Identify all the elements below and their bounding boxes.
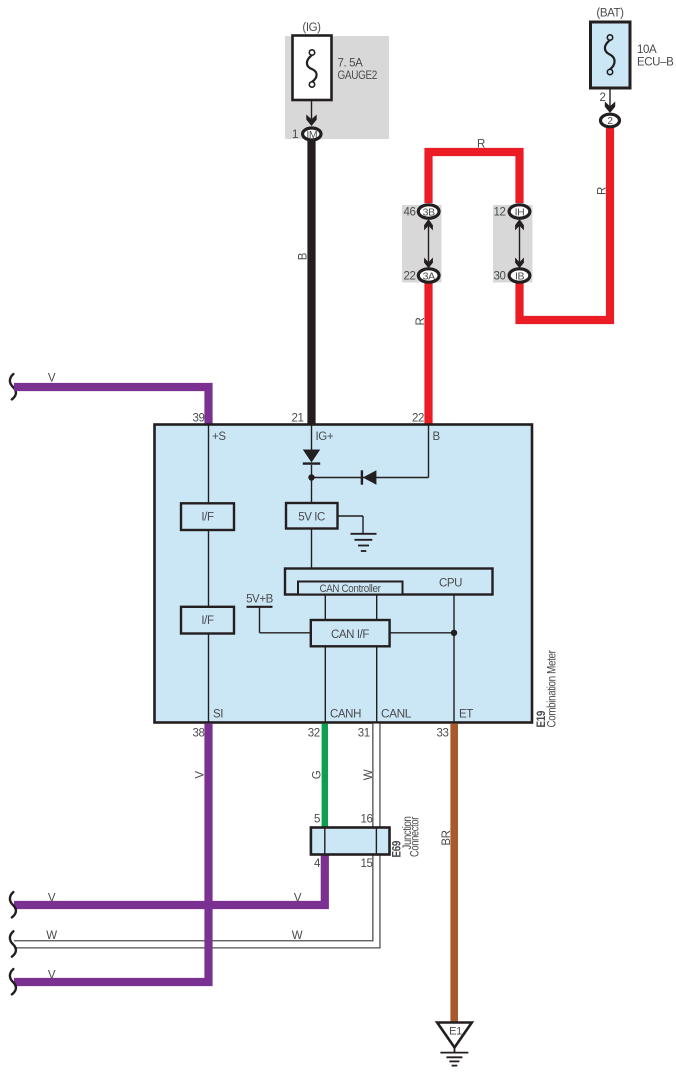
svg-text:+S: +S	[212, 431, 226, 443]
svg-text:3A: 3A	[423, 270, 435, 282]
connector IH	[509, 205, 530, 219]
I/F block upper	[181, 503, 234, 530]
fuse block (IG) background	[285, 36, 389, 139]
svg-text:10A: 10A	[637, 44, 657, 56]
wire R red from 3B to IH	[429, 152, 520, 203]
junction connector pin divider 16/15	[375, 828, 377, 855]
svg-text:32: 32	[308, 728, 320, 740]
internal wires CAN Controller to CAN I/F	[325, 595, 376, 621]
diode D1 (IG+)	[303, 450, 320, 504]
CAN Controller block	[298, 582, 403, 596]
fuse F1 body (IG)	[293, 36, 332, 101]
svg-text:V: V	[48, 893, 56, 905]
CPU block	[285, 569, 493, 595]
svg-text:V: V	[48, 970, 56, 982]
wire break symbol (bottom V wire)	[10, 969, 16, 994]
fuse element symbol (IG)	[307, 50, 317, 87]
internal wire IG+	[311, 425, 313, 450]
junction connector pin divider 5/4	[324, 828, 326, 855]
IC block CAN I/F	[311, 620, 390, 646]
svg-text:5V IC: 5V IC	[298, 512, 325, 524]
connector 2 oval	[601, 114, 620, 127]
svg-text:GAUGE2: GAUGE2	[338, 70, 378, 82]
svg-text:30: 30	[494, 271, 506, 283]
wire break symbol (W wire)	[10, 931, 16, 956]
svg-text:SI: SI	[213, 709, 223, 721]
svg-text:4: 4	[314, 858, 321, 870]
connector IB	[509, 269, 530, 283]
diode D2 (B line)	[362, 470, 377, 484]
node junction dot (diodes)	[308, 474, 314, 480]
svg-text:IH: IH	[515, 206, 525, 218]
svg-text:I/F: I/F	[201, 512, 214, 524]
I/F block lower	[181, 607, 234, 634]
internal wire B branch	[312, 425, 429, 478]
svg-text:12: 12	[494, 207, 506, 219]
svg-text:Connector: Connector	[410, 817, 422, 857]
wire V violet to meter pin 39	[14, 387, 209, 426]
svg-text:15: 15	[361, 858, 373, 870]
svg-text:B: B	[433, 431, 441, 443]
internal ground branch wire	[338, 516, 363, 534]
wire R red from connector 2 to IB	[520, 121, 611, 321]
svg-text:1: 1	[292, 129, 298, 141]
svg-text:IB: IB	[515, 270, 525, 282]
svg-text:39: 39	[193, 413, 205, 425]
wire R red from 3A to meter pin 22	[424, 283, 432, 426]
svg-text:IG+: IG+	[316, 431, 334, 443]
power symbol 5V+B	[246, 594, 311, 633]
wire break symbol (top V wire)	[10, 374, 16, 399]
svg-text:V: V	[294, 893, 302, 905]
connector IM (pin 1)	[303, 128, 321, 141]
svg-text:I/F: I/F	[201, 615, 214, 627]
svg-text:B: B	[297, 252, 309, 260]
wire V violet from junction pin 4	[14, 856, 325, 906]
svg-text:W: W	[292, 930, 303, 942]
svg-text:G: G	[312, 770, 324, 779]
svg-text:CANL: CANL	[381, 709, 412, 721]
twist arrow between 3B and 3A	[424, 219, 433, 268]
svg-text:5V+B: 5V+B	[246, 594, 274, 606]
svg-text:22: 22	[404, 271, 416, 283]
internal wire +S to SI	[208, 425, 210, 722]
connector arrow into IM	[306, 115, 316, 127]
svg-text:IM: IM	[306, 129, 317, 141]
ECU box E19 Combination Meter	[155, 425, 533, 723]
svg-text:38: 38	[193, 728, 205, 740]
svg-text:21: 21	[292, 413, 304, 425]
wire BR brown from ET	[450, 724, 458, 1023]
connector 3B	[418, 205, 439, 219]
svg-text:BR: BR	[441, 830, 453, 845]
svg-text:CAN Controller: CAN Controller	[320, 583, 382, 595]
svg-text:CPU: CPU	[439, 578, 462, 590]
wire B black from IM to meter pin 21	[307, 134, 315, 426]
internal wires CANH CANL	[325, 646, 376, 722]
wire G green from CANH	[322, 724, 328, 828]
svg-text:22: 22	[412, 413, 424, 425]
junction block 3A/3B background	[402, 205, 442, 283]
svg-text:Combination Meter: Combination Meter	[547, 650, 559, 727]
svg-text:5: 5	[314, 814, 320, 826]
svg-text:R: R	[477, 139, 485, 151]
svg-text:E1: E1	[449, 1026, 462, 1038]
junction block IH/IB background	[493, 205, 533, 283]
internal wire CAN I/F to CPU and ET	[390, 595, 454, 723]
node junction dot (ET)	[451, 630, 457, 636]
svg-text:3B: 3B	[423, 206, 435, 218]
svg-text:R: R	[415, 318, 427, 326]
wire V violet from meter pin 38	[14, 724, 209, 982]
twist arrow between IH and IB	[515, 219, 524, 268]
svg-text:31: 31	[358, 728, 370, 740]
connector arrow into 2	[605, 102, 615, 114]
svg-text:46: 46	[404, 207, 416, 219]
svg-text:V: V	[48, 373, 56, 385]
IC block 5V IC	[286, 503, 338, 529]
svg-text:ECU–B: ECU–B	[637, 57, 674, 69]
fuse element symbol (BAT)	[605, 35, 615, 75]
svg-text:7. 5A: 7. 5A	[338, 58, 364, 70]
svg-text:CANH: CANH	[330, 709, 361, 721]
ground symbol E1 hatching	[440, 1048, 468, 1066]
ground symbol E1 triangle	[437, 1023, 472, 1048]
svg-text:V: V	[195, 771, 207, 779]
svg-text:CAN I/F: CAN I/F	[331, 629, 369, 641]
wire W white from CANL	[14, 724, 376, 945]
junction connector E69 box	[311, 828, 390, 855]
svg-text:W: W	[363, 769, 375, 780]
svg-text:2: 2	[607, 116, 613, 127]
wire break symbol (pin4 V wire)	[10, 892, 16, 917]
svg-text:(IG): (IG)	[302, 22, 321, 34]
svg-text:16: 16	[361, 814, 373, 826]
svg-text:(BAT): (BAT)	[596, 8, 624, 20]
ground symbol (5V IC)	[351, 534, 377, 551]
svg-text:33: 33	[437, 728, 449, 740]
svg-text:R: R	[596, 187, 608, 195]
internal wire 5V IC to CPU	[311, 529, 313, 569]
svg-text:2: 2	[600, 92, 606, 104]
wire fuse (BAT) to connector 2	[609, 88, 611, 106]
fuse F2 body (BAT)	[591, 22, 631, 88]
wire fuse (IG) to connector IM	[311, 100, 313, 119]
svg-text:ET: ET	[459, 709, 473, 721]
svg-text:W: W	[46, 930, 57, 942]
connector 3A	[418, 269, 439, 283]
